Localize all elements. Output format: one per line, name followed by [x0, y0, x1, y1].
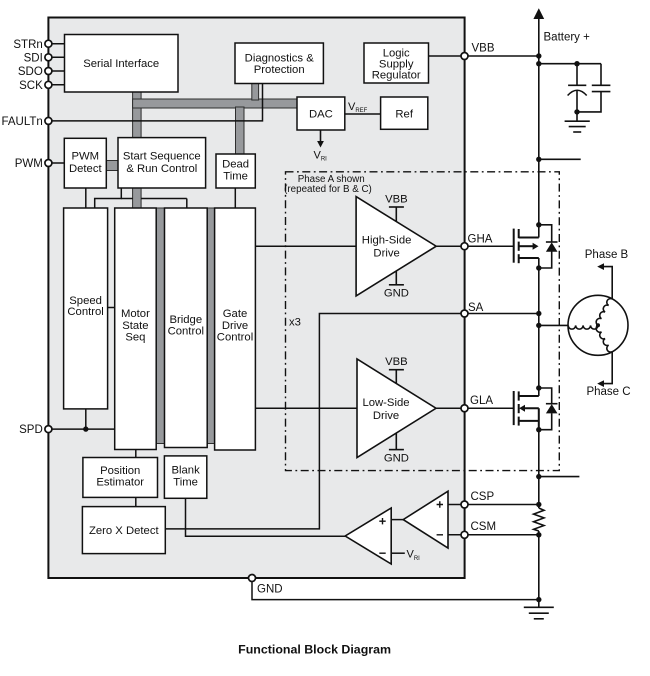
svg-text:Diagnostics &: Diagnostics & — [245, 53, 315, 65]
node other-phase stub bottom — [536, 474, 541, 479]
box Serial Interface — [65, 35, 179, 93]
wire motor state seq to position estimator — [135, 450, 137, 458]
svg-text:Drive: Drive — [222, 320, 248, 332]
wire speed control to motor state seq — [108, 307, 115, 309]
svg-text:PWM: PWM — [15, 158, 43, 170]
node Q1 source — [536, 265, 541, 270]
node CSM junction — [536, 532, 541, 537]
svg-text:State: State — [122, 320, 148, 332]
wire capacitor branch — [539, 63, 601, 65]
node VBB rail junction — [536, 53, 541, 58]
box Dead Time — [216, 154, 255, 188]
wire low-side source segment — [538, 430, 540, 508]
wire CSM line — [448, 534, 539, 536]
svg-text:VBB: VBB — [472, 43, 495, 55]
dashed box phase A — [286, 172, 560, 471]
svg-text:CSP: CSP — [471, 491, 495, 503]
wire battery rail upper segment — [538, 17, 540, 238]
node motor junction — [536, 323, 541, 328]
wire SPD line — [48, 428, 114, 430]
svg-text:Time: Time — [173, 476, 198, 488]
svg-text:GHA: GHA — [468, 234, 493, 246]
pin SA — [461, 310, 468, 317]
motor M1 — [568, 295, 628, 355]
svg-text:SA: SA — [468, 302, 484, 314]
diode D1 (Q1 body) — [539, 225, 558, 268]
svg-text:Phase C: Phase C — [586, 386, 630, 398]
svg-text:DAC: DAC — [309, 109, 333, 121]
box DAC — [297, 97, 345, 130]
pin SDO — [45, 68, 52, 75]
wire VRI reference input — [391, 552, 405, 554]
svg-text:Zero X Detect: Zero X Detect — [89, 525, 160, 537]
pin GND — [249, 575, 256, 582]
svg-text:Logic: Logic — [383, 47, 410, 59]
wire high-side output GHA — [436, 245, 514, 247]
bus: serial interface vertical trunk — [133, 92, 142, 208]
svg-text:Detect: Detect — [69, 163, 103, 175]
node other-phase stub top — [536, 157, 541, 162]
node cap bottom join — [574, 109, 579, 114]
box Start Sequence & Run Control — [118, 138, 206, 188]
pin PWM — [45, 160, 52, 167]
svg-text:SDO: SDO — [18, 66, 43, 78]
wire phase B — [604, 267, 613, 299]
svg-text:FAULTn: FAULTn — [1, 116, 42, 128]
bus: horizontal trunk to DAC — [133, 99, 297, 108]
wire stub to other phases bottom — [539, 476, 580, 478]
svg-text:GND: GND — [384, 453, 409, 465]
node CSP junction — [536, 502, 541, 507]
wire position estimator to zero x detect — [135, 497, 137, 506]
wire SCK stub — [48, 84, 64, 86]
svg-text:Start Sequence: Start Sequence — [123, 151, 201, 163]
svg-text:Supply: Supply — [379, 59, 414, 71]
capacitor C2 — [577, 64, 610, 112]
bus: pwm detect to start sequence — [106, 161, 118, 171]
node Q1 drain — [536, 222, 541, 227]
svg-text:Serial Interface: Serial Interface — [83, 58, 159, 70]
wire GND pin to ground node — [252, 578, 539, 600]
pin CSM — [461, 531, 468, 538]
svg-text:Control: Control — [67, 306, 103, 318]
svg-text:Functional Block Diagram: Functional Block Diagram — [238, 643, 391, 657]
op-amp U4 current amp — [345, 508, 391, 564]
pin VBB — [461, 53, 468, 60]
svg-text:Speed: Speed — [69, 295, 102, 307]
wire phase node segment — [538, 258, 540, 396]
box Ref — [381, 97, 428, 129]
wire small amp to big amp — [391, 519, 403, 521]
svg-text:Control: Control — [168, 325, 204, 337]
box Diagnostics & Protection — [235, 43, 323, 84]
pin SPD — [45, 426, 52, 433]
pin labels left — [1, 39, 43, 436]
pin labels right — [257, 43, 496, 596]
svg-text:GND: GND — [384, 288, 409, 300]
box Bridge Control — [165, 208, 208, 448]
svg-text:CSM: CSM — [471, 521, 497, 533]
svg-text:Drive: Drive — [373, 248, 399, 260]
node ground junction — [536, 597, 541, 602]
wire SDI stub — [48, 56, 64, 58]
wire PWM stub — [48, 162, 64, 164]
battery + arrow — [533, 8, 590, 43]
svg-text:Time: Time — [223, 170, 248, 182]
svg-text:Regulator: Regulator — [372, 70, 421, 82]
node Q2 drain — [536, 385, 541, 390]
svg-text:Control: Control — [217, 332, 253, 344]
ground (sense) — [524, 600, 554, 619]
box Zero X Detect — [82, 507, 165, 554]
svg-text:SCK: SCK — [19, 80, 43, 92]
pin GHA — [461, 243, 468, 250]
wire gate drive to low-side input — [255, 407, 357, 409]
wire start sequence distribution — [95, 188, 122, 208]
bus: band bridge-control / gate-drive-control — [207, 208, 214, 444]
wire stub to other phases top — [539, 158, 581, 160]
bus: diagnostics stub — [252, 84, 259, 101]
DAC output arrow — [320, 130, 322, 142]
node cap split — [574, 61, 579, 66]
box Logic Supply Regulator — [364, 43, 429, 83]
svg-text:Seq: Seq — [125, 332, 145, 344]
wire amp output to blank time — [186, 498, 346, 536]
op-amp U2 low-side drive — [357, 356, 436, 465]
node SPD junction — [83, 426, 88, 431]
pin FAULTn — [45, 117, 52, 124]
node SA junction — [536, 311, 541, 316]
svg-text:VBB: VBB — [385, 356, 408, 368]
svg-text:STRn: STRn — [13, 39, 42, 51]
svg-text:Battery +: Battery + — [544, 32, 591, 44]
node capacitor branch junction — [536, 61, 541, 66]
svg-text:Motor: Motor — [121, 308, 150, 320]
box Speed Control — [64, 208, 108, 409]
svg-text:Dead: Dead — [222, 158, 249, 170]
svg-text:PWM: PWM — [71, 151, 99, 163]
svg-text:SDI: SDI — [24, 52, 43, 64]
wire SDO stub — [48, 70, 64, 72]
wire pwm detect to speed control — [85, 188, 87, 208]
svg-text:Gate: Gate — [223, 308, 248, 320]
svg-text:Estimator: Estimator — [96, 477, 144, 489]
wire speed control bottom to SPD — [85, 409, 87, 429]
resistor R1 sense — [534, 508, 544, 531]
svg-text:Blank: Blank — [171, 464, 200, 476]
wire gate drive to high-side input — [255, 245, 356, 247]
box Motor State Seq — [115, 208, 157, 450]
capacitor C1 (polarized) — [568, 64, 587, 121]
wire logic supply regulator to VBB pin — [429, 55, 465, 57]
svg-text:Drive: Drive — [373, 410, 399, 422]
svg-text:VBB: VBB — [385, 194, 408, 206]
wire DAC to Ref — [345, 113, 381, 115]
pin SCK — [45, 81, 52, 88]
wire dead time to gate drive control — [234, 188, 236, 208]
pin terminals — [45, 40, 468, 581]
pin SDI — [45, 54, 52, 61]
wire VBB to battery rail — [465, 55, 539, 57]
bus: band motor-state-seq / bridge-control — [156, 208, 164, 444]
box Gate Drive Control — [215, 208, 256, 450]
ground (capacitors) — [565, 121, 590, 132]
box PWM Detect — [64, 138, 106, 188]
wire sense to ground segment — [538, 531, 540, 600]
diode D2 (Q2 body) — [539, 388, 558, 430]
pin CSP — [461, 501, 468, 508]
pin GLA — [461, 405, 468, 412]
box Blank Time — [164, 456, 206, 498]
op-amp U3 sense comparator — [403, 491, 448, 548]
svg-text:GLA: GLA — [470, 395, 493, 407]
svg-text:Protection: Protection — [254, 64, 305, 76]
wire FAULTn to diagnostics — [48, 84, 262, 121]
wire low-side output GLA — [436, 407, 514, 409]
wire SA sense to zero x detect — [165, 314, 539, 529]
bus: dead time stub — [236, 107, 245, 154]
transistor Q2 low-side MOSFET — [514, 391, 539, 430]
svg-text:Low-Side: Low-Side — [362, 397, 409, 409]
svg-text:SPD: SPD — [19, 424, 43, 436]
svg-text:High-Side: High-Side — [362, 234, 412, 246]
motor wire to winding — [539, 324, 568, 326]
box Position Estimator — [83, 458, 158, 498]
op-amp U1 high-side drive — [356, 194, 436, 300]
svg-text:Phase B: Phase B — [585, 249, 629, 261]
wire phase C — [604, 352, 613, 384]
transistor Q1 high-side MOSFET — [514, 229, 539, 264]
svg-text:x3: x3 — [289, 316, 301, 328]
node Q2 source — [536, 427, 541, 432]
wire CSP line — [448, 504, 539, 506]
pin STRn — [45, 40, 52, 47]
main IC block — [48, 18, 464, 579]
svg-text:(repeated for B & C): (repeated for B & C) — [284, 184, 372, 195]
svg-text:Ref: Ref — [395, 108, 413, 120]
wire STRn stub — [48, 43, 64, 45]
svg-text:GND: GND — [257, 584, 283, 596]
svg-text:& Run Control: & Run Control — [126, 163, 197, 175]
svg-text:Bridge: Bridge — [169, 314, 202, 326]
svg-text:Position: Position — [100, 465, 140, 477]
